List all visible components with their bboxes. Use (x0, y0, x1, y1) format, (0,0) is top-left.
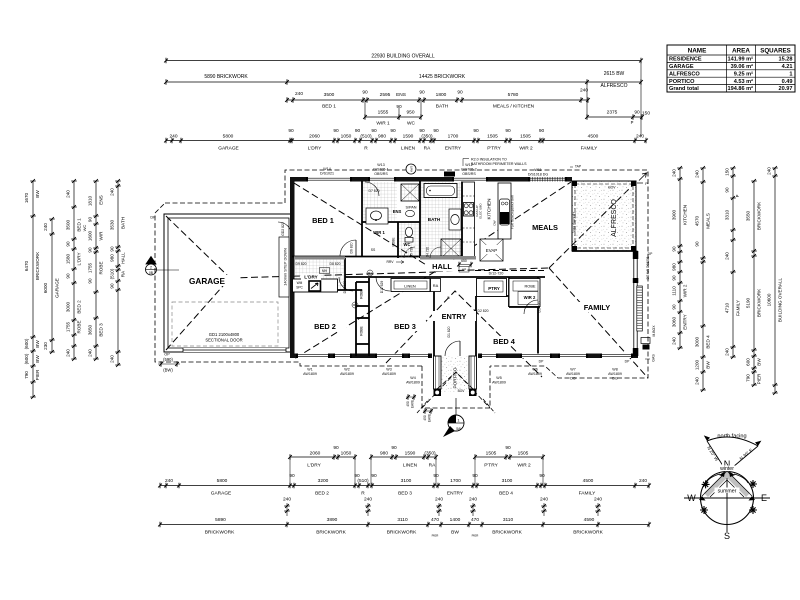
svg-text:ENTRY: ENTRY (445, 146, 462, 152)
dimension row: brickwork 5890 / 14425 (164, 71, 643, 89)
svg-text:W11: W11 (534, 168, 541, 172)
svg-text:90: 90 (505, 445, 511, 451)
svg-text:BED 4: BED 4 (706, 335, 711, 349)
svg-text:PORTICO: PORTICO (669, 79, 695, 85)
robe / wir2 (509, 279, 540, 307)
svg-text:1700: 1700 (448, 134, 459, 140)
svg-text:HALL: HALL (121, 252, 126, 264)
hall top wall tile band (294, 256, 345, 259)
svg-text:90: 90 (88, 247, 93, 253)
svg-text:D6 820: D6 820 (350, 242, 354, 253)
svg-text:14425 BRICKWORK: 14425 BRICKWORK (419, 74, 466, 80)
svg-text:KITCHEN: KITCHEN (487, 198, 493, 220)
svg-text:10600: 10600 (767, 293, 772, 306)
room label FAMILY (571, 302, 623, 312)
svg-text:1505: 1505 (520, 134, 531, 140)
right dim string R2: meals/bed4 (695, 166, 711, 392)
eaves dashed outline (155, 170, 648, 413)
svg-text:1: 1 (789, 71, 792, 77)
svg-text:90: 90 (473, 128, 479, 134)
svg-text:ELEC UBO: ELEC UBO (479, 203, 483, 219)
svg-text:BRICKWORK: BRICKWORK (205, 530, 235, 536)
svg-text:WIR 2: WIR 2 (517, 463, 531, 469)
svg-text:90: 90 (672, 246, 677, 252)
svg-text:W8: W8 (612, 368, 617, 372)
svg-text:DG: DG (570, 377, 576, 381)
evap cooler (480, 239, 503, 261)
svg-text:980: 980 (672, 263, 677, 271)
svg-text:1590: 1590 (405, 451, 416, 457)
svg-text:5890 BRICKWORK: 5890 BRICKWORK (204, 74, 248, 80)
svg-text:2595: 2595 (380, 92, 391, 98)
room label BED 1 (302, 215, 344, 225)
right dim string R5: building overall (767, 166, 783, 395)
svg-text:DG: DG (646, 274, 650, 279)
svg-text:W7: W7 (570, 368, 575, 372)
svg-text:90: 90 (672, 275, 677, 281)
compass rose north-facing (684, 434, 770, 542)
svg-text:(510): (510) (110, 268, 115, 279)
svg-text:240: 240 (43, 223, 48, 231)
svg-text:WIR 1: WIR 1 (373, 230, 385, 235)
svg-text:90: 90 (539, 473, 545, 479)
svg-text:240: 240 (66, 190, 71, 198)
svg-text:240: 240 (540, 497, 548, 503)
span shower + toilet (401, 184, 419, 217)
svg-text:BED 2: BED 2 (314, 322, 336, 331)
bath basin (449, 209, 461, 230)
svg-text:EAVE: EAVE (411, 400, 415, 408)
svg-text:L'DRY: L'DRY (77, 252, 82, 265)
svg-text:D5 720: D5 720 (410, 247, 414, 258)
svg-text:1700: 1700 (450, 478, 461, 484)
svg-text:240: 240 (435, 497, 443, 503)
svg-text:1200: 1200 (695, 359, 700, 370)
svg-text:(350): (350) (421, 134, 433, 140)
svg-text:BRICKWORK: BRICKWORK (757, 288, 762, 317)
svg-text:240: 240 (594, 497, 602, 503)
svg-text:RA: RA (121, 270, 126, 277)
svg-text:DP: DP (150, 216, 156, 220)
svg-text:north facing: north facing (717, 434, 746, 440)
insulation note + bar (444, 158, 527, 177)
svg-text:0.49: 0.49 (782, 79, 793, 85)
svg-text:P: P (631, 120, 634, 125)
area schedule table (667, 45, 795, 92)
svg-text:WIR: WIR (99, 231, 104, 241)
svg-text:90: 90 (288, 128, 294, 134)
svg-text:AW1809: AW1809 (608, 372, 622, 376)
svg-text:240: 240 (672, 169, 677, 177)
svg-text:150: 150 (725, 168, 730, 176)
svg-text:W2: W2 (344, 368, 349, 372)
svg-text:GAS: GAS (652, 354, 656, 362)
svg-text:ENTRY: ENTRY (683, 314, 688, 330)
dimension row: alfresco 2375 sub-row (585, 61, 650, 137)
svg-text:LINEN: LINEN (404, 284, 416, 289)
svg-text:90: 90 (66, 241, 71, 247)
svg-text:D4 720: D4 720 (426, 247, 430, 258)
svg-text:W10 DSF2112: W10 DSF2112 (573, 211, 577, 232)
downpipe marker alfresco corner (637, 173, 648, 186)
eave labels near portico (406, 394, 433, 422)
svg-text:BED 2: BED 2 (315, 491, 329, 497)
dimension row: room widths top (bed1/ens/bath/meals) (285, 88, 590, 110)
room label ENTRY (432, 311, 476, 321)
svg-text:90: 90 (390, 128, 396, 134)
dimension row: wir1 / wc sub-row (363, 100, 423, 127)
svg-text:R2: R2 (353, 303, 357, 307)
svg-text:3000: 3000 (695, 336, 700, 347)
svg-text:450: 450 (406, 401, 410, 407)
svg-text:1050: 1050 (341, 134, 352, 140)
svg-text:1800: 1800 (436, 92, 447, 98)
room label HALL (426, 261, 458, 271)
tiled wet areas (294, 182, 461, 289)
svg-text:OBS/RS: OBS/RS (374, 172, 388, 176)
svg-text:D8 820: D8 820 (330, 262, 341, 266)
svg-text:BATH: BATH (428, 217, 441, 222)
svg-text:SECTIONAL DOOR: SECTIONAL DOOR (205, 338, 242, 343)
svg-text:240: 240 (725, 252, 730, 260)
svg-text:AW1809: AW1809 (566, 372, 580, 376)
svg-text:58: 58 (456, 426, 461, 431)
svg-text:D/S1018 DG: D/S1018 DG (528, 173, 549, 177)
svg-text:R2.0 INSULATION TO: R2.0 INSULATION TO (471, 158, 507, 162)
svg-text:3110: 3110 (397, 517, 408, 523)
svg-text:FAMILY: FAMILY (736, 300, 741, 316)
svg-text:90: 90 (88, 278, 93, 284)
svg-text:15.28: 15.28 (779, 57, 793, 63)
svg-text:FAMILY: FAMILY (581, 146, 599, 152)
svg-text:470: 470 (431, 517, 439, 523)
wc toilet (404, 227, 413, 247)
svg-text:DW: DW (493, 220, 497, 225)
dimension row: garage/ldry/linen/entry row (164, 128, 648, 152)
svg-text:90: 90 (472, 473, 478, 479)
svg-text:W6: W6 (532, 368, 537, 372)
svg-text:P: P (735, 194, 740, 197)
svg-text:140mm STEP DOWN: 140mm STEP DOWN (283, 248, 288, 286)
dimension row: 22930 building overall (164, 54, 643, 64)
door arcs and labels (339, 182, 538, 356)
svg-text:BATH: BATH (121, 217, 126, 229)
svg-text:ENTRY: ENTRY (447, 491, 464, 497)
svg-text:90: 90 (371, 128, 377, 134)
section marker 2/DB left of garage (146, 257, 180, 276)
section marker 1/DB below portico (443, 398, 464, 437)
svg-text:3310: 3310 (725, 209, 730, 220)
windows bottom wall (296, 354, 633, 359)
svg-text:470: 470 (471, 517, 479, 523)
svg-text:D/S705-2: D/S705-2 (461, 168, 476, 172)
svg-text:GD2 820: GD2 820 (281, 222, 285, 236)
svg-text:5800: 5800 (223, 134, 234, 140)
svg-text:2615 BW: 2615 BW (604, 71, 625, 77)
svg-text:90: 90 (725, 187, 730, 193)
svg-text:240: 240 (695, 170, 700, 178)
svg-text:MH: MH (322, 269, 328, 273)
bed2/bed3 robes (360, 288, 364, 335)
svg-text:BRICKWORK: BRICKWORK (387, 530, 417, 536)
svg-text:90: 90 (354, 473, 360, 479)
garage walls (164, 214, 292, 352)
room label BED 4 (483, 336, 525, 346)
svg-text:4570: 4570 (695, 215, 700, 226)
svg-text:1400: 1400 (450, 517, 461, 523)
svg-text:90: 90 (110, 283, 115, 289)
svg-text:WIR 2: WIR 2 (683, 284, 688, 297)
svg-text:AW1809: AW1809 (492, 381, 506, 385)
room label BATH (428, 217, 441, 222)
alfresco enclosure (572, 181, 636, 251)
door labels (296, 189, 542, 337)
svg-text:BED 1: BED 1 (312, 216, 334, 225)
svg-text:EVAP: EVAP (486, 248, 497, 253)
step down box (279, 237, 289, 297)
svg-text:4710: 4710 (725, 302, 730, 313)
svg-text:BW: BW (757, 358, 762, 366)
svg-text:3100: 3100 (502, 478, 513, 484)
svg-text:4.53 m²: 4.53 m² (734, 78, 753, 85)
svg-text:P'TRY: P'TRY (484, 463, 498, 469)
svg-text:W1: W1 (307, 368, 312, 372)
laundry bench, trough and wm (293, 279, 338, 292)
svg-text:3100: 3100 (401, 478, 412, 484)
svg-text:LINEN: LINEN (403, 463, 418, 469)
svg-text:(590): (590) (163, 357, 173, 362)
svg-text:240: 240 (66, 349, 71, 357)
svg-text:BED 1: BED 1 (322, 104, 336, 110)
svg-text:ROBE: ROBE (360, 288, 364, 298)
svg-text:BOV: BOV (608, 186, 616, 190)
svg-text:90: 90 (419, 128, 425, 134)
room label BED 2 (304, 321, 346, 331)
tap label (570, 165, 582, 169)
svg-text:ROBE: ROBE (524, 284, 535, 289)
OP label (150, 216, 170, 357)
misc small labels (320, 230, 657, 362)
svg-text:ENS: ENS (393, 209, 402, 214)
svg-text:AREA: AREA (732, 48, 750, 55)
svg-text:W14: W14 (323, 167, 330, 171)
svg-text:RRV: RRV (386, 260, 394, 264)
garage door note GD1 (205, 332, 242, 343)
svg-text:90: 90 (362, 90, 368, 96)
svg-text:3650: 3650 (88, 324, 93, 335)
svg-text:HALL: HALL (432, 262, 452, 271)
svg-text:BW: BW (35, 355, 40, 363)
family right wall with ladder window (633, 251, 653, 356)
svg-text:980: 980 (380, 451, 388, 457)
svg-text:(BW): (BW) (163, 368, 173, 373)
return air (431, 279, 441, 292)
svg-text:150: 150 (642, 111, 650, 117)
svg-text:D1 820: D1 820 (447, 326, 451, 337)
svg-text:R1: R1 (368, 271, 372, 275)
svg-text:240: 240 (110, 188, 115, 196)
svg-text:GARAGE: GARAGE (55, 278, 60, 298)
svg-text:AW1809: AW1809 (528, 372, 542, 376)
svg-text:240: 240 (725, 348, 730, 356)
bath shower (440, 239, 476, 260)
left dim string: ens/wc/bed3 (82, 179, 104, 361)
kitchen labels (475, 195, 515, 229)
svg-text:1110: 1110 (672, 286, 677, 296)
svg-text:1670: 1670 (24, 192, 29, 203)
svg-text:PIER: PIER (35, 369, 40, 380)
house exterior walls (290, 177, 638, 358)
svg-text:240: 240 (110, 355, 115, 363)
svg-text:W9 DS1201: W9 DS1201 (646, 256, 650, 273)
svg-text:RA: RA (424, 146, 431, 152)
svg-text:BRICKWORK: BRICKWORK (35, 251, 40, 280)
left dim string: brickwork overall (24, 179, 40, 399)
svg-text:90: 90 (433, 128, 439, 134)
svg-text:5190: 5190 (746, 297, 751, 308)
svg-text:90: 90 (396, 104, 402, 110)
svg-text:240: 240 (169, 134, 177, 140)
svg-text:BW: BW (706, 361, 711, 369)
svg-text:BED 2: BED 2 (77, 300, 82, 314)
svg-text:AW1809: AW1809 (382, 372, 396, 376)
right dim string R3: family (725, 166, 741, 359)
svg-text:ROBE: ROBE (392, 237, 396, 246)
svg-text:950: 950 (406, 110, 414, 116)
svg-text:4590: 4590 (584, 517, 595, 523)
svg-text:ROBE: ROBE (77, 320, 82, 333)
svg-text:FAMILY: FAMILY (579, 491, 597, 497)
room label BED 3 (384, 321, 426, 331)
svg-text:BED 1: BED 1 (77, 218, 82, 232)
svg-text:3110: 3110 (503, 517, 514, 523)
svg-text:4.21: 4.21 (782, 64, 793, 70)
svg-text:90: 90 (391, 445, 397, 451)
svg-text:DP: DP (648, 252, 653, 256)
svg-text:W13: W13 (377, 163, 384, 167)
svg-text:WIR 2: WIR 2 (519, 146, 533, 152)
svg-text:BRICKWORK: BRICKWORK (316, 530, 346, 536)
svg-text:9.25 m²: 9.25 m² (734, 70, 753, 77)
window labels top (320, 163, 548, 177)
svg-text:(600): (600) (24, 338, 29, 349)
svg-text:DG: DG (612, 377, 618, 381)
svg-text:BW: BW (35, 190, 40, 198)
svg-text:D/12-720: D/12-720 (489, 272, 504, 276)
svg-text:BOV: BOV (458, 389, 466, 393)
svg-text:5800: 5800 (217, 478, 228, 484)
svg-text:WIR 1: WIR 1 (376, 121, 390, 127)
svg-text:3000: 3000 (66, 301, 71, 312)
svg-text:240: 240 (88, 349, 93, 357)
svg-text:1755: 1755 (66, 321, 71, 332)
svg-text:ALFRESCO: ALFRESCO (611, 199, 618, 237)
svg-text:M.BOX: M.BOX (652, 325, 656, 337)
left dim string: bed1/ldry/bed2 (66, 179, 82, 361)
svg-text:P'TRY: P'TRY (487, 146, 501, 152)
svg-text:4500: 4500 (588, 134, 599, 140)
svg-text:4500: 4500 (583, 478, 594, 484)
svg-text:240: 240 (283, 497, 291, 503)
svg-text:BUILDING OVERALL: BUILDING OVERALL (778, 277, 783, 322)
svg-text:39.06 m²: 39.06 m² (731, 63, 754, 70)
svg-text:650: 650 (461, 259, 467, 263)
svg-text:D9 820: D9 820 (296, 262, 307, 266)
svg-text:RA: RA (429, 463, 436, 469)
svg-text:ALFRESCO: ALFRESCO (669, 71, 700, 77)
svg-text:1810: 1810 (88, 195, 93, 206)
room label GARAGE (177, 275, 237, 286)
svg-text:GARAGE: GARAGE (211, 491, 232, 497)
svg-text:450: 450 (423, 415, 427, 421)
svg-text:AW1809: AW1809 (406, 381, 420, 385)
svg-text:2: 2 (150, 266, 152, 270)
svg-text:3550: 3550 (746, 210, 751, 221)
svg-text:90: 90 (333, 445, 339, 451)
hall ceiling dashed line (475, 270, 545, 272)
svg-text:PIER: PIER (757, 373, 762, 384)
svg-text:D10 620: D10 620 (343, 280, 347, 293)
svg-text:W5: W5 (496, 376, 501, 380)
svg-text:BRICKWORK: BRICKWORK (757, 201, 762, 230)
svg-text:ENTRY: ENTRY (442, 312, 467, 321)
svg-text:winter: winter (720, 466, 734, 472)
bottom dimension sub-row: ldry/linen/ptry (288, 445, 545, 485)
svg-text:Grand total: Grand total (669, 86, 699, 92)
svg-text:980: 980 (378, 134, 386, 140)
right dim string R1: kitchen/wir2/entry (672, 166, 688, 350)
svg-text:90: 90 (433, 473, 439, 479)
svg-text:240: 240 (469, 497, 477, 503)
svg-text:PTRY: PTRY (488, 286, 500, 291)
svg-text:2060: 2060 (310, 451, 321, 457)
svg-text:240: 240 (165, 478, 173, 484)
svg-text:DP: DP (539, 360, 544, 364)
svg-text:D7 820: D7 820 (369, 189, 380, 193)
right dim string R4: brickwork (746, 179, 762, 387)
interior partition walls (292, 181, 636, 356)
svg-text:D3 720: D3 720 (538, 301, 542, 312)
svg-text:ENS: ENS (99, 195, 104, 204)
svg-text:6470: 6470 (24, 260, 29, 271)
svg-text:141.99 m²: 141.99 m² (728, 56, 754, 63)
svg-text:BRICKWORK: BRICKWORK (492, 530, 522, 536)
svg-text:FLAT BENCH@BRKF BAR: FLAT BENCH@BRKF BAR (511, 195, 515, 229)
svg-text:GARAGE: GARAGE (669, 64, 694, 70)
svg-text:BATH: BATH (436, 104, 449, 110)
svg-text:OBS/RS: OBS/RS (462, 172, 476, 176)
svg-text:790: 790 (24, 371, 29, 379)
linen cupboard (391, 279, 430, 292)
svg-text:90: 90 (88, 217, 93, 223)
svg-text:ALFRESCO: ALFRESCO (601, 83, 628, 89)
svg-text:OP: OP (164, 353, 170, 357)
bottom dimension row: brickwork (158, 517, 651, 538)
svg-text:GARAGE: GARAGE (218, 146, 239, 152)
svg-text:5780: 5780 (508, 92, 519, 98)
svg-text:3200: 3200 (318, 478, 329, 484)
svg-text:TAP: TAP (575, 165, 582, 169)
svg-text:RESIDENCE: RESIDENCE (669, 57, 702, 63)
svg-text:KITCHEN: KITCHEN (683, 205, 688, 225)
svg-text:240: 240 (364, 497, 372, 503)
svg-text:DP: DP (625, 360, 630, 364)
svg-text:WC: WC (407, 121, 416, 127)
svg-text:EAVE: EAVE (428, 414, 432, 422)
portico walls and piers (434, 356, 477, 396)
svg-text:90: 90 (371, 473, 377, 479)
svg-text:2060: 2060 (309, 134, 320, 140)
